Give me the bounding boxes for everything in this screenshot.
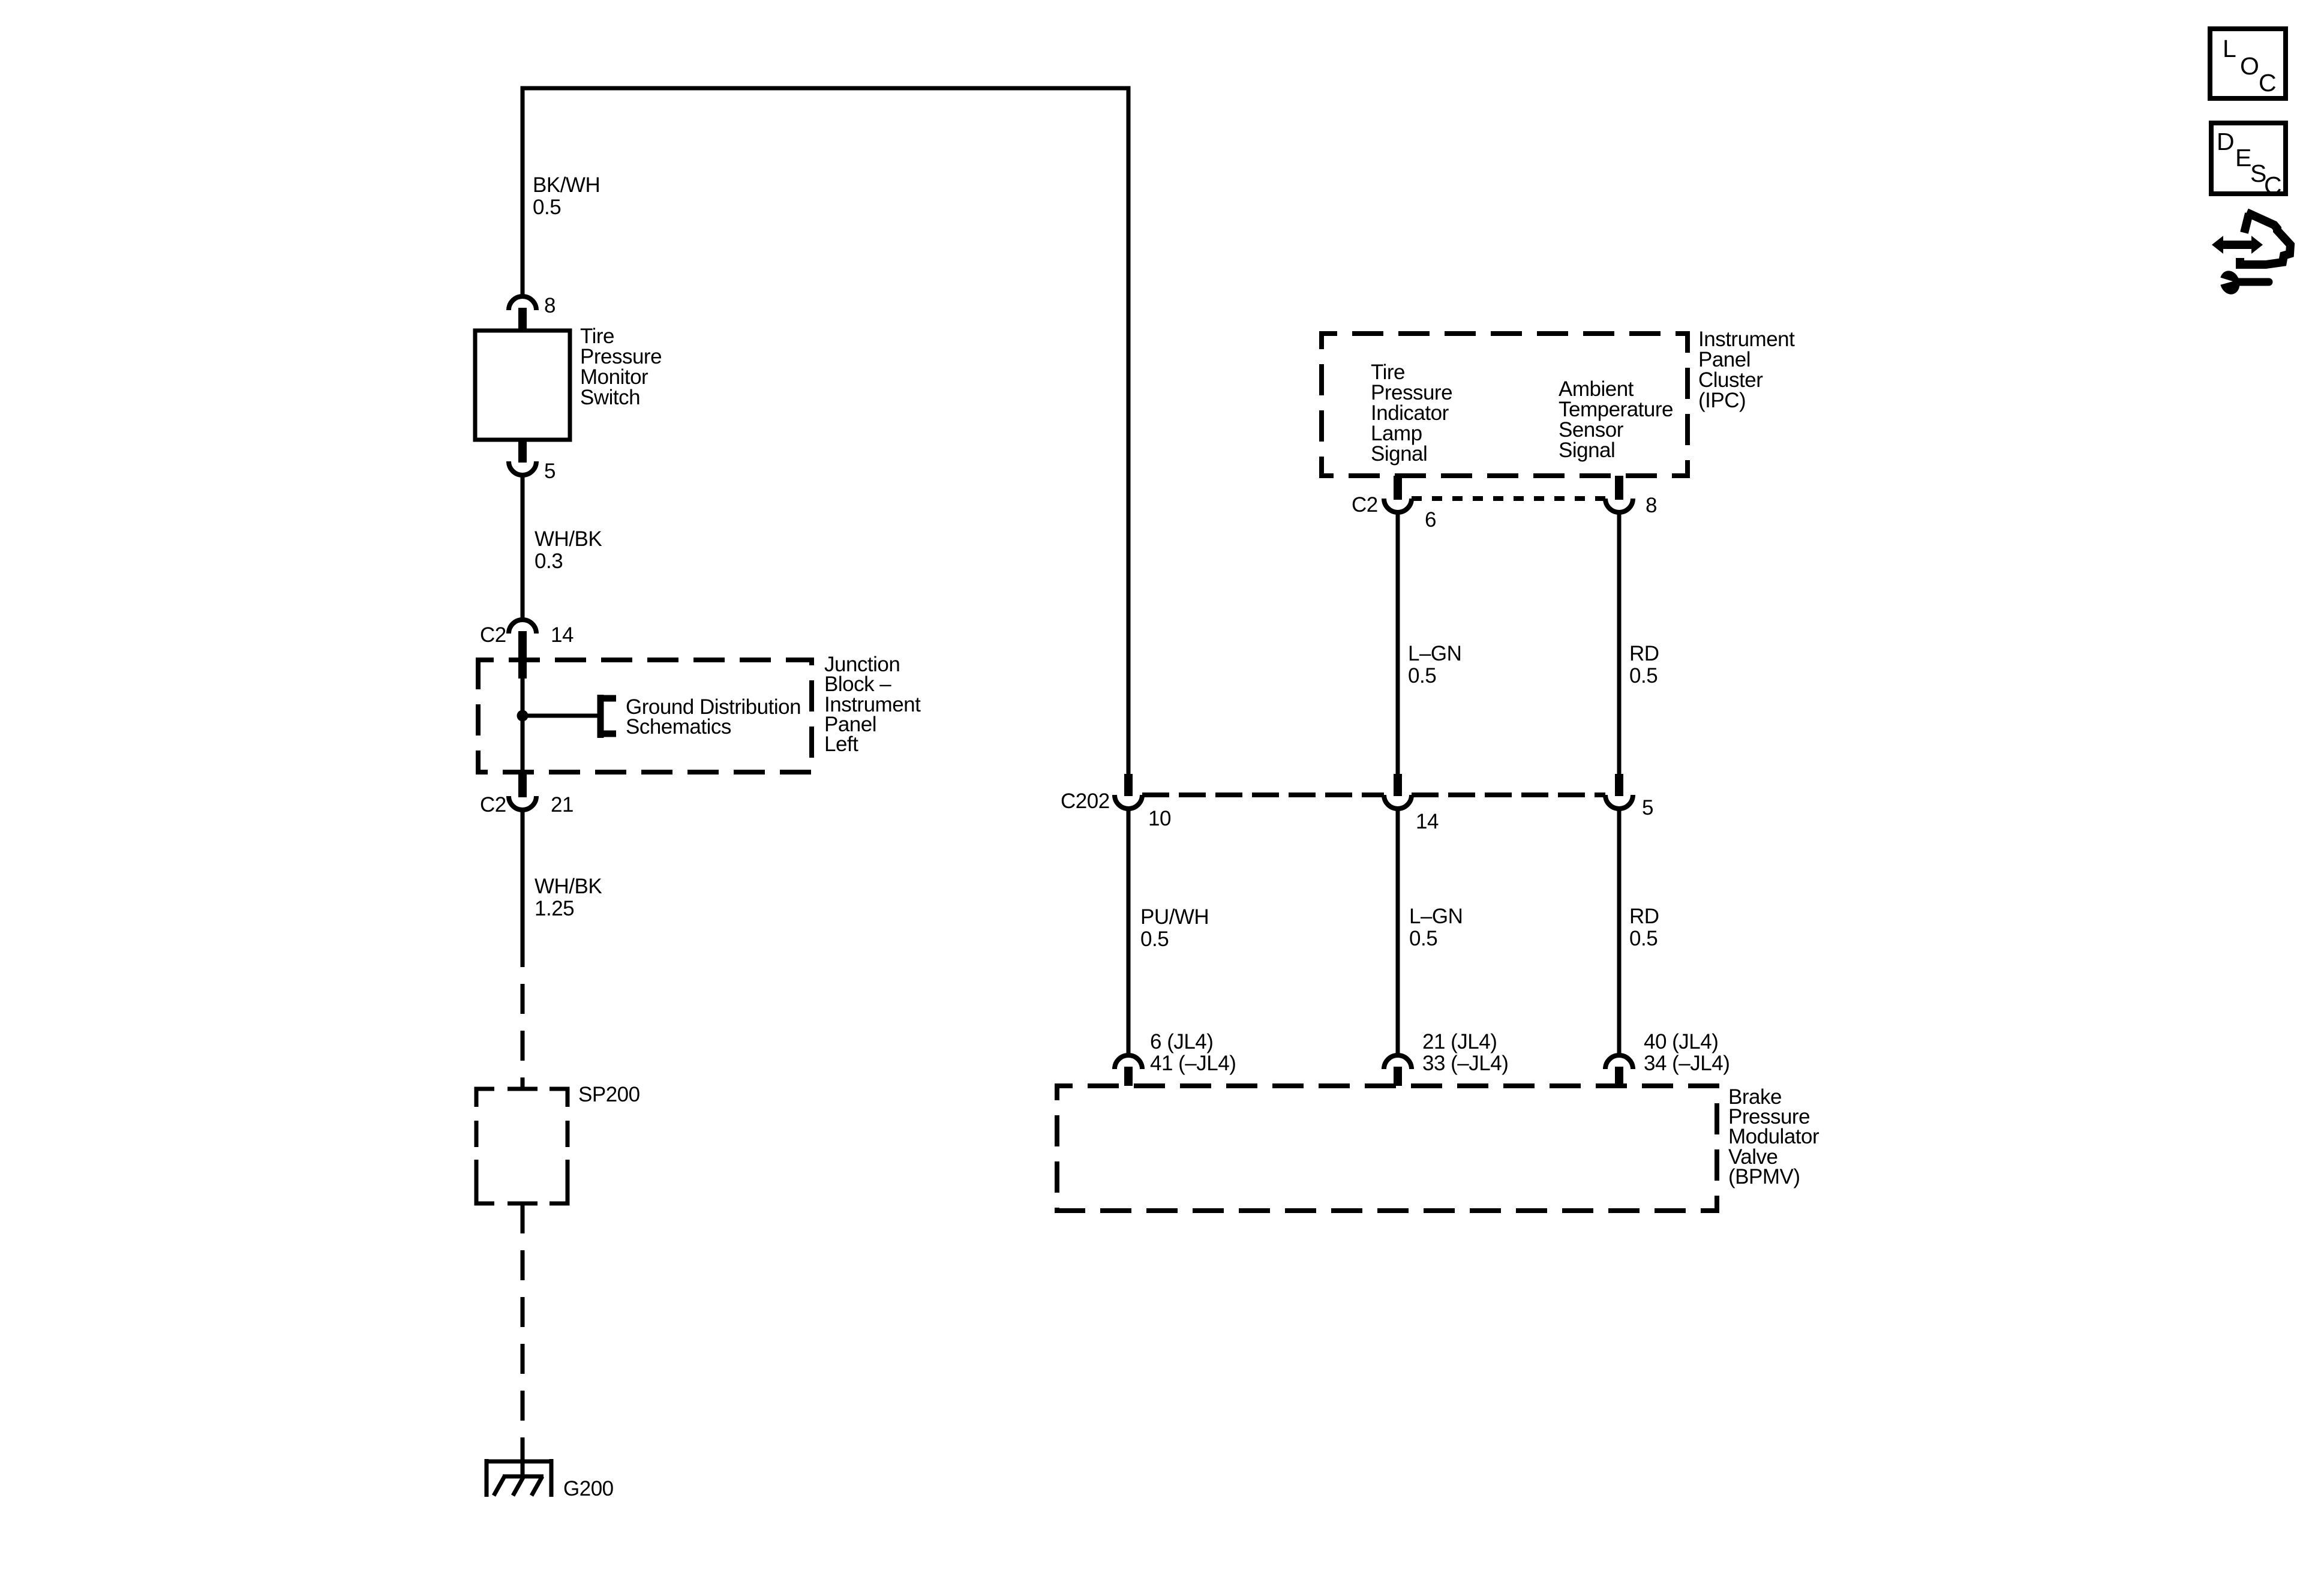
svg-text:C: C: [2264, 172, 2281, 199]
svg-text:G200: G200: [563, 1477, 614, 1500]
svg-text:6: 6: [1425, 508, 1436, 532]
svg-text:E: E: [2235, 144, 2251, 172]
svg-text:33 (–JL4): 33 (–JL4): [1422, 1052, 1508, 1075]
svg-text:14: 14: [1416, 810, 1439, 833]
node junction dot: [517, 710, 529, 722]
svg-text:8: 8: [544, 294, 556, 317]
connector pin 8 (IPC): [1605, 476, 1657, 517]
svg-text:0.5: 0.5: [533, 196, 561, 219]
svg-text:WH/BK: WH/BK: [535, 527, 602, 551]
svg-text:C2: C2: [480, 793, 506, 816]
wire left vertical to switch pin 8: [521, 88, 525, 296]
svg-text:L–GN: L–GN: [1409, 905, 1463, 928]
svg-text:L–GN: L–GN: [1408, 642, 1461, 665]
svg-text:C2: C2: [1352, 493, 1378, 517]
dashed link C202 10 to 14: [1142, 792, 1384, 797]
BPMV dashed box: Brake Pressure Modulator Valve: [1057, 1086, 1717, 1211]
wire dashed SP200 to G200: [521, 1203, 525, 1461]
junction block dashed box: [478, 660, 812, 772]
svg-text:41 (–JL4): 41 (–JL4): [1150, 1052, 1236, 1075]
label Ground Distribution Schematics: [626, 695, 801, 739]
svg-text:0.3: 0.3: [535, 550, 563, 573]
connector BPMV pin 6/41: [1115, 1030, 1236, 1086]
svg-text:5: 5: [544, 460, 556, 483]
bracket ground distribution reference: [599, 695, 616, 738]
switch box: Tire Pressure Monitor Switch: [475, 325, 662, 440]
svg-text:10: 10: [1148, 807, 1171, 830]
svg-text:PU/WH: PU/WH: [1140, 905, 1209, 929]
dashed link C202 14 to 5: [1412, 792, 1605, 797]
connector C202 pin 5: [1605, 774, 1653, 819]
svg-text:0.5: 0.5: [1629, 664, 1658, 688]
svg-text:RD: RD: [1629, 642, 1659, 665]
icon double arrow: [2212, 236, 2263, 254]
svg-text:C2: C2: [480, 623, 506, 647]
connector pin 8 (Tire Pressure Monitor Switch): [509, 294, 556, 331]
connector pin 5 (switch bottom): [509, 440, 556, 483]
svg-text:L: L: [2223, 35, 2236, 62]
label Ambient Temperature Sensor Signal: [1559, 377, 1673, 462]
svg-text:SP200: SP200: [578, 1083, 640, 1106]
connector BPMV pin 40/34: [1605, 1030, 1730, 1086]
wire RD 0.5 (IPC to C202): [1619, 512, 1659, 775]
wire dashed to SP200: [521, 937, 525, 1089]
svg-text:WH/BK: WH/BK: [535, 875, 602, 898]
svg-text:O: O: [2240, 52, 2259, 80]
wire top horizontal BK/WH: [523, 88, 1128, 91]
icon car outline: [2240, 212, 2290, 265]
svg-text:5: 5: [1642, 796, 1653, 819]
svg-text:BK/WH: BK/WH: [533, 173, 600, 197]
svg-text:Schematics: Schematics: [626, 715, 731, 739]
svg-text:C: C: [2259, 69, 2276, 97]
wire WH/BK 1.25: [523, 810, 602, 942]
connector BPMV pin 21/33: [1384, 1030, 1508, 1086]
wire L-GN 0.5 (C202 to BPMV): [1398, 809, 1463, 1056]
connector C2 pin 6 (IPC): [1352, 476, 1436, 532]
wire right vertical to C202 pin 10: [1127, 88, 1131, 775]
ground G200 symbol: [485, 1459, 553, 1497]
label Brake Pressure Modulator Valve (BPMV): [1728, 1085, 1819, 1188]
LOC box: [2210, 29, 2286, 98]
splice SP200 dashed box: [476, 1089, 568, 1203]
wire L-GN 0.5 (IPC to C202): [1398, 512, 1461, 775]
svg-text:0.5: 0.5: [1629, 927, 1658, 950]
connector C2 pin 14 (junction block top): [480, 620, 574, 679]
wire PU/WH 0.5: [1128, 809, 1209, 1056]
connector C2 pin 21 (junction block bottom): [480, 772, 574, 816]
svg-text:Signal: Signal: [1559, 439, 1615, 462]
svg-text:(IPC): (IPC): [1698, 389, 1746, 412]
connector C202 pin 10: [1061, 774, 1171, 830]
wire inside junction block: [521, 674, 525, 772]
svg-text:Signal: Signal: [1371, 442, 1427, 466]
wire RD 0.5 (C202 to BPMV): [1619, 809, 1659, 1056]
svg-text:C202: C202: [1061, 789, 1110, 813]
svg-text:RD: RD: [1629, 905, 1659, 928]
svg-text:Left: Left: [824, 733, 858, 756]
svg-text:40 (JL4): 40 (JL4): [1644, 1030, 1718, 1053]
label BK/WH 0.5: [533, 173, 600, 219]
IPC dashed box: Instrument Panel Cluster: [1322, 334, 1688, 476]
svg-text:8: 8: [1646, 494, 1657, 517]
svg-text:0.5: 0.5: [1408, 664, 1436, 688]
svg-text:14: 14: [551, 623, 574, 647]
svg-text:1.25: 1.25: [535, 897, 574, 920]
svg-text:6 (JL4): 6 (JL4): [1150, 1030, 1213, 1053]
label Junction Block - Instrument Panel Left: [824, 653, 921, 756]
svg-text:(BPMV): (BPMV): [1728, 1165, 1800, 1188]
dashed link between IPC connectors: [1412, 496, 1605, 501]
label Tire Pressure Indicator Lamp Signal: [1371, 361, 1452, 466]
label Instrument Panel Cluster (IPC): [1698, 328, 1795, 412]
svg-text:0.5: 0.5: [1140, 927, 1169, 951]
svg-text:Switch: Switch: [580, 386, 640, 409]
svg-text:0.5: 0.5: [1409, 927, 1437, 950]
icon wrench: [2217, 268, 2269, 297]
wire WH/BK 0.3: [523, 475, 602, 620]
svg-text:21: 21: [551, 793, 574, 816]
svg-text:D: D: [2217, 128, 2234, 155]
DESC box: [2211, 123, 2286, 199]
svg-text:21 (JL4): 21 (JL4): [1422, 1030, 1497, 1053]
connector C202 pin 14: [1384, 774, 1439, 833]
wire to ground distribution bracket: [523, 714, 600, 718]
svg-text:34 (–JL4): 34 (–JL4): [1644, 1052, 1730, 1075]
